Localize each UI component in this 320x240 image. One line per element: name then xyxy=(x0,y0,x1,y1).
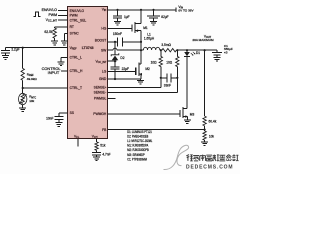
node 33nF right xyxy=(176,77,178,79)
resistor 10R sense- xyxy=(176,50,178,92)
svg-text:2.2µF: 2.2µF xyxy=(11,48,19,52)
svg-text:HG: HG xyxy=(101,27,106,31)
node VOUT/60.4k xyxy=(204,49,206,51)
svg-text:C1: PTPB330MM: C1: PTPB330MM xyxy=(127,157,147,161)
svg-text:EN/UVLO: EN/UVLO xyxy=(42,8,58,12)
node shunt/out xyxy=(176,49,178,51)
transistor M1 xyxy=(135,10,141,42)
svg-text:D2: D2 xyxy=(120,56,124,60)
ground 1uF xyxy=(114,21,121,25)
capacitor 22uF xyxy=(111,61,120,79)
svg-text:10Ω: 10Ω xyxy=(166,60,173,64)
wire SENSE+ xyxy=(108,87,161,89)
svg-text:4.7nF: 4.7nF xyxy=(102,153,110,157)
node FB xyxy=(204,129,206,131)
node VCC_INT xyxy=(114,60,116,62)
svg-text:GND: GND xyxy=(99,77,107,81)
wire RT xyxy=(55,26,68,28)
svg-text:LT3743: LT3743 xyxy=(82,46,94,50)
capacitor 4.7nF xyxy=(92,152,101,156)
node VIN/M1 xyxy=(140,9,142,11)
node VIN/1uF xyxy=(116,9,118,11)
svg-text:60.4k: 60.4k xyxy=(209,119,217,123)
wire LG xyxy=(108,70,136,72)
node SW xyxy=(140,49,142,51)
LED D1 xyxy=(186,50,188,108)
BOM list xyxy=(127,130,152,161)
capacitor 2.2uF xyxy=(1,48,10,56)
ground 10k xyxy=(201,142,208,146)
svg-text:CTRL_L: CTRL_L xyxy=(70,56,82,60)
watermark CJK text 织梦内容管理系统 xyxy=(186,155,238,161)
svg-text:51k: 51k xyxy=(100,144,106,148)
resistor 10R sense+ xyxy=(160,50,162,87)
wire PWMGH xyxy=(108,113,180,115)
wire VOUT rail xyxy=(177,49,217,51)
svg-text:150nF: 150nF xyxy=(113,32,122,36)
wire PWM xyxy=(58,14,68,16)
svg-text:INPUT: INPUT xyxy=(48,70,60,75)
svg-text:10nF: 10nF xyxy=(46,116,53,120)
resistor 62.5k xyxy=(53,28,56,38)
wire BOOST xyxy=(108,41,117,43)
wire VREF xyxy=(6,47,68,49)
svg-text:L1: MVR1271C-162ML: L1: MVR1271C-162ML xyxy=(127,139,152,143)
wire FB xyxy=(108,129,205,131)
svg-text:DEDECMS.COM: DEDECMS.COM xyxy=(186,164,233,170)
svg-text:3.5mΩ: 3.5mΩ xyxy=(161,43,171,47)
svg-text:×3: ×3 xyxy=(224,51,228,55)
wire SYNC xyxy=(64,34,67,41)
svg-text:LG: LG xyxy=(102,70,107,74)
wire VCL stub xyxy=(77,139,79,147)
resistor RREF 49.9k xyxy=(22,48,24,88)
svg-text:CTRL_SEL: CTRL_SEL xyxy=(70,18,87,22)
IC U1 LT3743 body xyxy=(68,7,108,139)
capacitor 82uF xyxy=(147,10,160,21)
svg-text:D1: D1 xyxy=(196,51,200,55)
svg-text:CTRL_H: CTRL_H xyxy=(70,69,83,73)
node GND/22uF xyxy=(114,78,116,80)
svg-text:VCL: VCL xyxy=(74,134,80,139)
ground C1 xyxy=(214,58,221,62)
inductor L1 xyxy=(141,49,161,51)
svg-text:CTRL_T: CTRL_T xyxy=(70,86,82,90)
node VIN/82uF xyxy=(152,9,154,11)
resistor 51k xyxy=(96,139,98,152)
pulse waveform symbol xyxy=(34,12,41,16)
svg-text:M3: SiR496DP: M3: SiR496DP xyxy=(127,153,145,157)
svg-text:22µF: 22µF xyxy=(122,67,129,71)
thermistor RNTC 10k xyxy=(22,88,24,94)
capacitor 1uF xyxy=(113,10,122,21)
svg-text:PWM: PWM xyxy=(48,13,57,17)
node 33nF left xyxy=(160,77,162,79)
wire GND pin xyxy=(108,78,141,80)
svg-text:10k: 10k xyxy=(209,135,215,139)
svg-text:D2: PMEG4002EB: D2: PMEG4002EB xyxy=(127,135,149,139)
ground RNTC xyxy=(19,108,26,112)
wire CTRL_SEL xyxy=(58,19,68,21)
capacitor C1 330uF x3 xyxy=(212,50,222,57)
resistor shunt 3.5mOhm xyxy=(162,49,177,52)
svg-text:SYNC: SYNC xyxy=(70,32,80,36)
wire CTRL_T xyxy=(23,87,68,89)
svg-text:VCH: VCH xyxy=(92,134,98,139)
svg-text:10k: 10k xyxy=(29,99,34,103)
capacitor 33nF xyxy=(161,74,178,83)
svg-text:VIN: VIN xyxy=(102,8,107,13)
svg-text:10Ω: 10Ω xyxy=(151,60,158,64)
capacitor 150nF bootstrap xyxy=(118,38,123,47)
svg-text:M1: M1 xyxy=(143,26,148,30)
svg-text:M2: RJK0330DPB: M2: RJK0330DPB xyxy=(127,148,149,152)
resistor 60.4k xyxy=(204,50,206,129)
svg-text:62.5k: 62.5k xyxy=(44,30,53,34)
svg-text:82µF: 82µF xyxy=(161,15,168,19)
svg-text:EN/UVLO: EN/UVLO xyxy=(70,9,85,13)
transistor M2 xyxy=(139,50,141,79)
node VREF/RREF xyxy=(22,47,24,49)
ground 82uF xyxy=(150,21,157,25)
diode D2 xyxy=(114,42,116,61)
node BOOST/SW col xyxy=(140,41,142,43)
wire CTRL_H xyxy=(61,70,67,72)
wire VIN rail xyxy=(108,7,176,12)
svg-text:VCC_INT: VCC_INT xyxy=(46,18,58,23)
wire PWMGL stub xyxy=(108,98,115,100)
ground power xyxy=(140,79,142,80)
wire EN/UVLO xyxy=(58,10,68,12)
wire VCC_INT xyxy=(108,60,117,62)
wire HG xyxy=(108,28,132,30)
svg-text:RT: RT xyxy=(70,25,74,29)
svg-text:20A MAXIMUM: 20A MAXIMUM xyxy=(192,38,214,42)
ground 4.7nF xyxy=(93,157,100,161)
ground CTRL_L xyxy=(61,57,68,61)
wire SW with hop xyxy=(108,42,141,50)
transistor M3 xyxy=(183,109,187,120)
wire SENSE- xyxy=(108,91,177,93)
svg-text:VREF: VREF xyxy=(70,46,78,51)
svg-text:49.9kΩ: 49.9kΩ xyxy=(27,77,38,81)
svg-text:PWM: PWM xyxy=(70,14,78,18)
svg-text:VCC_INT: VCC_INT xyxy=(95,59,106,64)
svg-text:M1: RJK0365DPA: M1: RJK0365DPA xyxy=(127,144,149,148)
ground M3 xyxy=(184,120,191,124)
ground SYNC xyxy=(61,41,68,45)
svg-text:SW: SW xyxy=(101,48,107,52)
capacitor 10nF SS xyxy=(54,117,63,123)
node L1/shunt xyxy=(160,49,162,51)
wire SS xyxy=(59,113,68,116)
node VOUT/D1 xyxy=(186,49,188,51)
svg-text:M3: M3 xyxy=(190,112,195,116)
svg-text:BOOST: BOOST xyxy=(95,39,107,43)
svg-text:D1: LUMINUS PT121: D1: LUMINUS PT121 xyxy=(127,130,152,134)
watermark swoosh xyxy=(164,145,189,169)
ground RT xyxy=(51,41,58,45)
svg-text:PWMGH: PWMGH xyxy=(93,112,107,116)
svg-text:1µF: 1µF xyxy=(124,15,130,19)
svg-text:PWMGL: PWMGL xyxy=(94,97,107,101)
svg-text:1.65µH: 1.65µH xyxy=(144,36,155,40)
svg-text:M2: M2 xyxy=(145,67,150,71)
svg-text:33nF: 33nF xyxy=(164,84,171,88)
ground 2.2uF xyxy=(2,56,9,60)
resistor 10k xyxy=(203,131,206,140)
svg-text:6V TO 36V: 6V TO 36V xyxy=(178,9,194,13)
node CTRL_T xyxy=(22,87,24,89)
ground SS xyxy=(55,123,62,127)
node BOOST/D2 xyxy=(114,41,116,43)
